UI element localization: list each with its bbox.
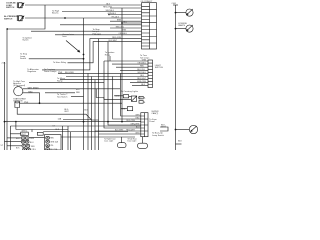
D3 lead bbox=[121, 108, 128, 110]
svg-text:Panel: Panel bbox=[149, 121, 155, 123]
label to courtesy lamps bbox=[44, 68, 56, 73]
label 57 bbox=[1, 145, 4, 147]
svg-text:Lamp Switch: Lamp Switch bbox=[152, 134, 165, 137]
vertical drop x98.5 bbox=[98, 39, 100, 150]
wire y119.5 bbox=[63, 119, 92, 121]
row side labels bbox=[30, 138, 36, 151]
right lamp bus bbox=[175, 5, 177, 150]
svg-text:BLK-RED: BLK-RED bbox=[65, 72, 75, 74]
C2 wire 2 bbox=[112, 63, 148, 65]
row2 left stub bbox=[5, 141, 22, 143]
svg-text:GRN-ORG: GRN-ORG bbox=[137, 81, 147, 83]
labels pnk blk-red bbox=[58, 72, 75, 74]
label WHT bbox=[28, 88, 39, 90]
wire pin13 from horn relay bbox=[68, 42, 142, 63]
wire pin10 (to ignition switch) bbox=[31, 30, 142, 32]
wire into D2 bbox=[104, 98, 131, 100]
staircase into bottom connector: wire 1 bbox=[121, 90, 141, 116]
svg-text:GRN: GRN bbox=[122, 30, 127, 32]
bottom connector C3 bbox=[141, 113, 148, 137]
junction dot drop bbox=[15, 121, 17, 123]
junction dot bus/pin7 bbox=[121, 22, 123, 24]
svg-text:Tow Switch: Tow Switch bbox=[57, 95, 68, 98]
lamp L2 stub bbox=[176, 28, 187, 30]
wire pin2 bbox=[110, 7, 142, 9]
long wire y121.6 bbox=[5, 121, 141, 123]
second left bus wire bbox=[4, 62, 6, 150]
wire pin12 from alternator regulator bbox=[42, 39, 142, 70]
svg-text:RED-YEL: RED-YEL bbox=[116, 26, 124, 28]
vertical drop x62.5 bbox=[62, 126, 64, 150]
svg-text:Switch: Switch bbox=[22, 39, 29, 42]
label to stop light switch bbox=[20, 53, 28, 60]
svg-text:BLK-WHT: BLK-WHT bbox=[108, 40, 117, 42]
cluster-to-fusebox stub bbox=[29, 137, 45, 139]
lamp L2 arrow bbox=[187, 25, 193, 31]
junction dot x108 on y121.6 bbox=[107, 121, 109, 123]
svg-text:Ramp: Ramp bbox=[57, 80, 63, 82]
svg-text:21A: 21A bbox=[2, 62, 6, 65]
lamp L1 stub bbox=[176, 12, 187, 14]
wire row y79.4 bbox=[29, 82, 104, 84]
oval inner marks bbox=[22, 138, 48, 150]
svg-text:Door Light: Door Light bbox=[128, 140, 137, 143]
bottom connector wire 5 bbox=[95, 130, 141, 132]
vertical drop x88 bbox=[87, 73, 89, 150]
svg-text:BLU: BLU bbox=[123, 22, 127, 24]
switch S1 (courtesy lamp switch) symbol bbox=[17, 2, 24, 8]
wire pnk-blk row bbox=[58, 72, 148, 74]
label to alternator regulator bbox=[27, 68, 39, 73]
D1 lead bbox=[114, 95, 131, 98]
annotation arrow to bus bbox=[66, 41, 79, 52]
svg-text:BLK-ORG: BLK-ORG bbox=[126, 120, 135, 122]
connector C1 body bbox=[142, 3, 157, 49]
dome light label bbox=[128, 138, 138, 143]
label to trailer tow bbox=[57, 93, 68, 98]
fuse labels bbox=[50, 138, 58, 151]
row1 label bbox=[16, 138, 20, 140]
svg-text:To Horn Relay: To Horn Relay bbox=[53, 61, 67, 64]
vertical drop x95 bbox=[94, 80, 96, 150]
annotation text grounding lamp bbox=[63, 33, 75, 38]
svg-text:RED-GRN: RED-GRN bbox=[112, 37, 121, 39]
cluster top wire bbox=[16, 129, 68, 131]
row3 left stub bbox=[7, 145, 22, 147]
junction dot on pin4 wire bbox=[108, 14, 110, 16]
small box D2 bbox=[131, 96, 136, 101]
label to ignition switch bbox=[22, 37, 32, 42]
switch S1 label bbox=[6, 2, 16, 9]
wire PNK bbox=[20, 102, 123, 104]
top right corner text bbox=[151, 111, 159, 115]
short drop x32 bbox=[31, 130, 33, 133]
svg-text:BLK WHT: BLK WHT bbox=[115, 130, 124, 132]
long bottom wire y131.5 bbox=[43, 131, 128, 133]
junction dot stop-lamp wire on bus bbox=[83, 58, 85, 60]
svg-text:BLU: BLU bbox=[140, 75, 144, 77]
staircase wire 3 bbox=[108, 42, 141, 125]
svg-text:BLU: BLU bbox=[136, 127, 140, 129]
wire drop from S1 wire to left bus bbox=[7, 5, 45, 29]
svg-text:BLU 20A: BLU 20A bbox=[50, 148, 58, 150]
fuel sender stub bbox=[176, 129, 190, 131]
connector C1 divider bbox=[149, 3, 151, 49]
wire pin4 bbox=[110, 14, 142, 16]
svg-text:BRN: BRN bbox=[117, 20, 122, 22]
svg-text:C405: C405 bbox=[172, 3, 177, 5]
wire pin8 bbox=[60, 24, 142, 26]
svg-text:WHT (HSE): WHT (HSE) bbox=[28, 88, 39, 90]
C2 wire 1 bbox=[104, 60, 148, 62]
connector C1 right rungs bbox=[150, 10, 157, 43]
svg-text:RED: RED bbox=[140, 66, 145, 68]
svg-text:SWITCH: SWITCH bbox=[6, 7, 15, 9]
fuse panel box bbox=[45, 135, 62, 150]
label 14A bbox=[58, 117, 62, 120]
D2 diagonal bbox=[131, 96, 136, 101]
misc mid texts bbox=[93, 28, 102, 35]
BLK RED stacked labels bbox=[76, 89, 81, 94]
dome light component bbox=[138, 143, 148, 148]
small box E2 bbox=[139, 101, 143, 104]
D2 label bbox=[138, 98, 142, 100]
label to right rear ramp bbox=[57, 77, 66, 82]
C2 wire 3 bbox=[116, 66, 148, 68]
motor M1 circle bbox=[14, 87, 23, 96]
top tick of lamp bus bbox=[173, 4, 178, 6]
svg-text:14A: 14A bbox=[58, 117, 62, 120]
svg-text:RED-WHT: RED-WHT bbox=[137, 78, 147, 80]
red wire extension bbox=[45, 92, 75, 94]
label 57 mid bbox=[53, 125, 56, 127]
courtesy light label bbox=[104, 138, 116, 143]
light switch label bbox=[155, 65, 164, 69]
ignition coil K1 bbox=[15, 102, 20, 108]
svg-text:YEL-BLK: YEL-BLK bbox=[111, 16, 120, 18]
lamp L1 arrow bbox=[187, 9, 193, 15]
wire to high beams bbox=[62, 11, 142, 13]
wire pin9 bbox=[110, 27, 142, 29]
left bus wire (21A) bbox=[6, 29, 8, 150]
B1 label bbox=[21, 134, 26, 136]
lamp L2 bbox=[186, 25, 193, 32]
lamp L2 junction dot bbox=[175, 28, 177, 30]
junction dot at bus x122 bbox=[121, 121, 123, 123]
staircase wire 4 bbox=[104, 61, 141, 128]
svg-text:Beams: Beams bbox=[52, 13, 58, 15]
wire to stop lamp switch bbox=[29, 58, 84, 60]
junction dot at x80 bbox=[83, 121, 85, 123]
label to radio arrow bbox=[13, 80, 26, 83]
C3 right label bbox=[149, 119, 157, 123]
svg-text:PNK: PNK bbox=[24, 102, 29, 104]
svg-text:OF CONNECT: OF CONNECT bbox=[141, 1, 154, 3]
svg-text:GRN: GRN bbox=[135, 115, 140, 117]
bottom-center vertical pair a bbox=[67, 126, 69, 150]
BLK label near bus bbox=[84, 110, 88, 112]
courtesy lights label bbox=[121, 90, 138, 93]
C2 wire 8 bbox=[130, 82, 148, 84]
svg-text:Regulator: Regulator bbox=[27, 70, 36, 73]
svg-text:ORG: ORG bbox=[32, 149, 37, 150]
wire pin6 bbox=[110, 20, 142, 22]
svg-text:GRN: GRN bbox=[30, 138, 35, 140]
label above B1 bbox=[22, 130, 28, 132]
license lamps label bbox=[178, 23, 188, 27]
label heat ignition bbox=[13, 97, 26, 102]
svg-text:Pink wire: Pink wire bbox=[93, 32, 102, 35]
bottom connector wire labels bbox=[126, 115, 140, 135]
wire from S2 to connector pin 5 bbox=[25, 17, 142, 19]
svg-text:Switch: Switch bbox=[20, 57, 27, 60]
label BLK-WHT mid bottom bbox=[64, 109, 69, 113]
connector C1 header text bbox=[141, 1, 154, 3]
wire row y75.2 bbox=[66, 76, 148, 78]
small box D1 bbox=[123, 95, 128, 98]
svg-text:YEL: YEL bbox=[50, 145, 53, 147]
backup lamp stub wire bbox=[160, 127, 168, 131]
corner drop to cluster bbox=[15, 122, 17, 130]
svg-text:CAB(?): CAB(?) bbox=[151, 112, 158, 115]
wire to dome light bbox=[142, 137, 144, 144]
svg-text:Dome Lamps: Dome Lamps bbox=[44, 71, 56, 73]
svg-text:BLK-YEL: BLK-YEL bbox=[137, 69, 145, 71]
ignition relay stub bbox=[109, 56, 111, 61]
svg-text:RED-ORG: RED-ORG bbox=[103, 6, 112, 8]
wire pin7 from main bus bbox=[122, 22, 142, 24]
D3 label bbox=[121, 109, 126, 111]
svg-text:WHT-BLK: WHT-BLK bbox=[106, 10, 115, 12]
label to horn relay bbox=[53, 61, 67, 64]
label blk under 57 bbox=[56, 129, 60, 131]
label to high beams bbox=[52, 11, 60, 15]
label blk-wht bottom bbox=[115, 130, 124, 132]
wire to courtesy light bbox=[121, 137, 123, 143]
connector C1 left rungs bbox=[142, 6, 150, 46]
backup lamp label bbox=[161, 124, 166, 128]
wire WHT from motor bbox=[23, 88, 120, 90]
bottom connector wire 6 bbox=[99, 133, 141, 135]
svg-text:RED: RED bbox=[136, 118, 141, 120]
wire pin11 bbox=[55, 34, 142, 36]
cluster ovals row4 bbox=[23, 148, 27, 151]
branch to B1 bbox=[10, 133, 20, 135]
svg-text:SWITCH: SWITCH bbox=[4, 19, 13, 21]
junction dot pnk/red bbox=[39, 102, 41, 104]
svg-text:Cour. Light: Cour. Light bbox=[104, 140, 114, 143]
row1 left stub bbox=[7, 137, 21, 139]
junction dot left bus bbox=[4, 121, 6, 123]
svg-text:IGNITION: IGNITION bbox=[13, 100, 23, 102]
fuse ovals column bbox=[46, 136, 50, 139]
label RED bbox=[28, 92, 33, 94]
C3 rungs bbox=[141, 116, 148, 134]
svg-text:ORG-BLU: ORG-BLU bbox=[137, 63, 146, 65]
label PNK bbox=[24, 102, 29, 104]
fuel sender junction dot bbox=[175, 129, 177, 131]
svg-text:RED: RED bbox=[28, 92, 33, 94]
C2 header label bbox=[140, 54, 149, 59]
junction dot on x84 bus bbox=[83, 54, 85, 56]
C2 wire labels bbox=[137, 60, 147, 87]
bottom stub off lamp bus bbox=[176, 143, 182, 145]
cluster box B1 bbox=[21, 132, 29, 135]
wire from S1 to connector pin 1 bbox=[25, 4, 142, 6]
D1 label bbox=[115, 96, 120, 98]
cluster ovals row1 bbox=[21, 137, 25, 140]
corner junction dot bbox=[6, 28, 8, 30]
cluster ovals row2 bbox=[21, 140, 25, 143]
svg-text:ORG-BLU: ORG-BLU bbox=[118, 33, 127, 35]
wire labels at connector bbox=[103, 3, 128, 42]
long bottom wire y137 bbox=[61, 136, 135, 138]
to backup lamp switch label bbox=[152, 133, 165, 137]
cluster box B2 bbox=[37, 132, 43, 135]
svg-text:GRN-BLK: GRN-BLK bbox=[108, 13, 117, 15]
wire row y77 bbox=[60, 79, 148, 81]
lamp L1 bbox=[186, 9, 193, 16]
jog down from WHT wire bbox=[96, 89, 104, 100]
svg-text:Relay: Relay bbox=[105, 54, 111, 56]
svg-text:To Courtesy Lights: To Courtesy Lights bbox=[121, 90, 138, 93]
top tick label bbox=[172, 3, 177, 5]
svg-text:WHT-BLU: WHT-BLU bbox=[137, 72, 146, 74]
staircase wire 2 bbox=[113, 77, 141, 120]
wire y126 bbox=[10, 125, 140, 127]
svg-text:BLK: BLK bbox=[178, 141, 183, 143]
courtesy light component bbox=[118, 143, 127, 148]
svg-text:RED: RED bbox=[76, 92, 81, 94]
bottom right fuel sender circle bbox=[189, 125, 197, 133]
small box D3 bbox=[127, 107, 132, 111]
C2 rungs bbox=[148, 63, 153, 84]
C2 wire 4 bbox=[120, 69, 148, 71]
cluster ovals row3 bbox=[22, 144, 26, 147]
wire corner into bottom cluster bbox=[17, 108, 98, 121]
tiny label bottom bbox=[16, 147, 20, 149]
svg-text:SWITCH: SWITCH bbox=[155, 67, 164, 69]
vertical x120.7 upper bbox=[120, 73, 122, 90]
svg-text:PNK: PNK bbox=[58, 72, 63, 74]
switch S2 (in-between switch) symbol bbox=[17, 15, 24, 21]
main vertical bus 14A bbox=[121, 8, 123, 122]
label 21A bbox=[2, 62, 6, 65]
trailer stub wire bbox=[71, 95, 84, 97]
bottom-center vertical pair b bbox=[70, 132, 72, 150]
fuel sender arrow bbox=[191, 126, 197, 131]
svg-text:ORG: ORG bbox=[135, 133, 140, 135]
C3 divider bbox=[144, 113, 146, 137]
label radio bbox=[13, 82, 25, 87]
vertical bus at x84 bbox=[83, 18, 85, 150]
vertical drop x91.5 bbox=[91, 77, 93, 151]
corner drop at x10.4 bbox=[9, 126, 11, 150]
svg-text:GRN: GRN bbox=[142, 60, 147, 62]
svg-text:GRN 10A: GRN 10A bbox=[50, 140, 58, 143]
fuel label bottom bbox=[178, 141, 183, 143]
junction dot on SW2 wire bbox=[64, 17, 66, 19]
switch S2 label bbox=[4, 15, 20, 20]
small box E1 bbox=[139, 96, 143, 99]
svg-text:LAMPS: LAMPS bbox=[178, 24, 186, 27]
E labels bbox=[144, 97, 146, 104]
svg-text:GRN-WHT: GRN-WHT bbox=[130, 124, 140, 126]
C2 wire 9 bbox=[132, 85, 148, 87]
lamp L1 junction dot bbox=[175, 12, 177, 14]
wire RED from motor bbox=[23, 93, 40, 103]
mid connector C2 body (light switch connector) bbox=[148, 60, 153, 88]
